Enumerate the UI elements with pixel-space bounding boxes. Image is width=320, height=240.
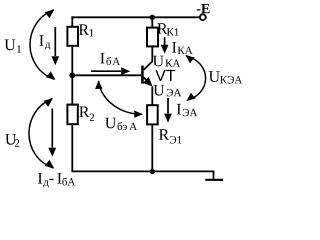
label Id minus IbA — [38, 173, 42, 184]
label Id — [39, 35, 43, 46]
wire bottom rail — [71, 171, 213, 179]
transistor VT emitter — [143, 77, 153, 87]
node base junction — [69, 72, 75, 78]
label R2 — [79, 107, 89, 118]
resistor RE1 — [147, 105, 158, 124]
label IKA — [172, 42, 176, 53]
arrow IbA — [91, 67, 130, 75]
ground — [205, 179, 223, 181]
arc UbeA — [95, 80, 143, 118]
resistor R1 — [67, 27, 78, 46]
label IbA — [100, 53, 104, 64]
arc U1 — [30, 10, 55, 80]
label U1 — [5, 40, 16, 51]
label UEA — [153, 85, 164, 96]
label -E — [197, 4, 210, 13]
label RK1 — [157, 23, 167, 34]
resistor RK1 — [147, 28, 158, 47]
wire collector — [144, 46, 153, 70]
arrow IEA — [164, 98, 172, 123]
node top junction — [150, 15, 155, 20]
label VT — [155, 70, 175, 81]
label UbeA — [105, 118, 116, 129]
resistor R2 — [67, 105, 77, 125]
wire left branch middle — [71, 46, 73, 105]
label IEA — [177, 104, 181, 115]
label RE1 — [159, 129, 169, 140]
terminal -E circle — [200, 14, 206, 20]
wire left branch lower — [71, 124, 73, 171]
label UKEA — [209, 71, 220, 82]
arrow IKA — [161, 37, 169, 54]
wire left branch upper — [71, 16, 73, 26]
wire emitter lower — [151, 87, 153, 106]
wire top rail — [71, 16, 199, 18]
transistor VT base bar — [141, 66, 144, 84]
label U2 — [5, 134, 16, 145]
wire right branch upper — [151, 17, 153, 27]
arrow Id — [51, 27, 59, 65]
arrow Id minus IbA — [48, 109, 56, 157]
label R1 — [79, 24, 89, 35]
node bottom junction — [150, 169, 155, 174]
label UKA — [153, 56, 164, 67]
wire base — [72, 74, 141, 76]
arc UKEA — [186, 55, 206, 101]
wire emitter to rail — [151, 124, 153, 171]
arc U2 — [29, 98, 54, 168]
